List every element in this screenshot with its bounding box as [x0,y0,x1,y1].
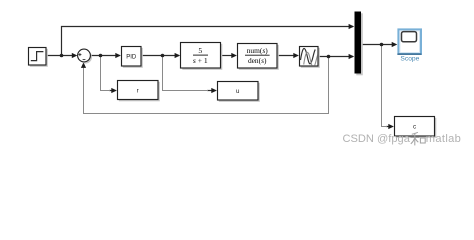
svg-text:matlab: matlab [426,133,461,145]
svg-text:c: c [413,124,416,131]
svg-text:r: r [137,87,139,94]
svg-text:den(s): den(s) [248,56,267,65]
svg-text:PID: PID [126,54,137,60]
svg-text:num(s): num(s) [247,46,269,55]
svg-text:CSDN @fpga: CSDN @fpga [343,133,411,145]
svg-text:Scope: Scope [400,56,419,63]
svg-text:5: 5 [198,46,202,55]
svg-text:u: u [236,88,240,95]
svg-text:s + 1: s + 1 [193,56,208,65]
